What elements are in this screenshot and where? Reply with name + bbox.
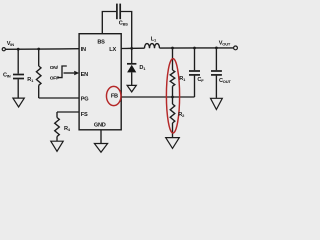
- svg-text:BS: BS: [97, 39, 105, 45]
- svg-text:OFF: OFF: [50, 75, 59, 81]
- svg-text:CBS: CBS: [119, 21, 128, 27]
- svg-text:VOUT: VOUT: [219, 40, 231, 46]
- svg-text:GND: GND: [94, 123, 106, 129]
- svg-text:R1: R1: [179, 76, 186, 82]
- svg-text:FB: FB: [111, 94, 118, 100]
- svg-text:COUT: COUT: [219, 78, 231, 84]
- svg-text:EN: EN: [81, 72, 88, 78]
- svg-text:CIN: CIN: [3, 72, 11, 78]
- svg-text:R2: R2: [178, 112, 185, 118]
- svg-text:FS: FS: [81, 112, 88, 118]
- svg-text:D1: D1: [139, 65, 146, 71]
- svg-text:PG: PG: [81, 96, 89, 102]
- svg-text:R1: R1: [27, 77, 34, 83]
- svg-text:LX: LX: [109, 47, 116, 53]
- svg-text:VIN: VIN: [7, 41, 14, 47]
- svg-text:IN: IN: [81, 47, 86, 53]
- svg-text:ON/: ON/: [50, 65, 59, 71]
- svg-text:R4: R4: [64, 126, 71, 132]
- svg-text:CF: CF: [197, 77, 204, 83]
